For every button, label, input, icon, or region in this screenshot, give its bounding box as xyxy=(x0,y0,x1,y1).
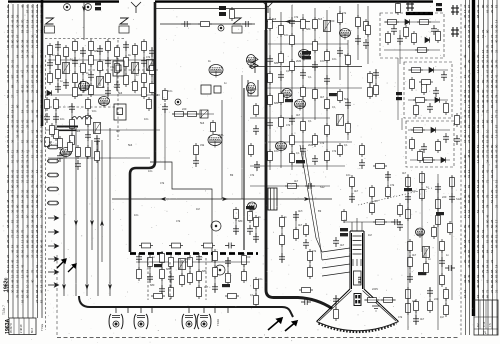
svg-text:46: 46 xyxy=(495,159,499,163)
wire xyxy=(116,48,118,90)
svg-text:13: 13 xyxy=(35,44,39,48)
svg-text:43: 43 xyxy=(6,24,10,28)
svg-text:58: 58 xyxy=(486,49,490,53)
svg-text:23: 23 xyxy=(26,279,30,283)
capacitor C21 xyxy=(53,113,59,123)
wire xyxy=(384,49,440,51)
svg-text:79: 79 xyxy=(11,269,15,273)
resistor R50 xyxy=(185,112,199,117)
svg-text:82: 82 xyxy=(6,189,10,193)
resistor R104 xyxy=(374,83,379,97)
resistor R137 xyxy=(308,249,313,263)
svg-text:50: 50 xyxy=(26,294,30,298)
wire xyxy=(326,10,328,170)
resistor R68 xyxy=(301,85,306,99)
arrowhead xyxy=(285,20,291,24)
wire xyxy=(45,129,160,131)
svg-text:22: 22 xyxy=(495,204,499,208)
svg-text:1962c: 1962c xyxy=(4,277,10,292)
svg-text:0,1: 0,1 xyxy=(296,151,300,155)
svg-text:76: 76 xyxy=(40,19,44,23)
arrowhead xyxy=(160,197,166,201)
svg-text:40: 40 xyxy=(490,64,494,68)
svg-text:41: 41 xyxy=(40,154,44,158)
svg-text:47k: 47k xyxy=(146,55,151,59)
svg-text:15: 15 xyxy=(11,274,15,278)
svg-text:41: 41 xyxy=(486,169,490,173)
svg-text:21: 21 xyxy=(31,84,35,88)
resistor R8 xyxy=(48,71,53,85)
svg-text:4k7: 4k7 xyxy=(374,199,379,203)
capacitor C13 xyxy=(88,71,94,81)
svg-text:52: 52 xyxy=(16,89,20,93)
svg-text:66: 66 xyxy=(16,194,20,198)
svg-text:82: 82 xyxy=(6,124,10,128)
wire xyxy=(397,58,399,120)
table divider xyxy=(479,300,481,329)
svg-text:20: 20 xyxy=(31,194,35,198)
svg-text:91: 91 xyxy=(476,34,480,38)
svg-text:4k7: 4k7 xyxy=(296,113,301,117)
wire xyxy=(243,88,245,250)
svg-text:76: 76 xyxy=(6,139,10,143)
svg-text:11: 11 xyxy=(490,115,494,118)
svg-text:51: 51 xyxy=(467,214,471,218)
svg-text:89: 89 xyxy=(495,84,499,88)
svg-text:80: 80 xyxy=(11,39,15,43)
resistor R56 xyxy=(268,71,273,85)
svg-text:46: 46 xyxy=(31,144,35,148)
svg-text:84: 84 xyxy=(6,74,10,78)
svg-text:B9: B9 xyxy=(318,209,322,213)
svg-text:23: 23 xyxy=(16,64,20,68)
capacitor C79 xyxy=(349,193,355,203)
svg-text:37: 37 xyxy=(6,54,10,58)
wire xyxy=(445,290,447,314)
resistor R110 xyxy=(373,164,387,169)
capacitor C20 xyxy=(149,47,155,57)
svg-text:44: 44 xyxy=(486,224,490,228)
svg-text:77: 77 xyxy=(35,14,39,18)
svg-text:10n: 10n xyxy=(320,59,325,63)
resistor R129 xyxy=(213,265,218,279)
svg-text:680: 680 xyxy=(94,49,99,53)
CRT grid electrode xyxy=(353,249,362,251)
svg-text:91: 91 xyxy=(11,154,15,158)
coil S2 xyxy=(97,77,104,88)
svg-text:43: 43 xyxy=(40,159,44,163)
table divider xyxy=(13,318,15,335)
svg-text:70: 70 xyxy=(463,234,467,238)
capacitor C66 xyxy=(293,211,299,221)
capacitor C29 xyxy=(162,103,168,113)
wire xyxy=(291,5,293,170)
svg-text:34: 34 xyxy=(21,149,25,153)
svg-text:37: 37 xyxy=(31,254,35,258)
right margin heavy wire xyxy=(472,0,475,316)
svg-text:10: 10 xyxy=(26,284,30,288)
svg-text:66: 66 xyxy=(31,9,35,13)
bold label block xyxy=(302,56,311,59)
tube holder xyxy=(248,80,258,96)
svg-text:52: 52 xyxy=(490,199,494,203)
svg-text:79: 79 xyxy=(486,44,490,48)
svg-text:95: 95 xyxy=(6,69,10,73)
svg-text:21: 21 xyxy=(481,134,485,138)
wire xyxy=(147,258,149,300)
capacitor C52 xyxy=(363,39,369,49)
test point M4 xyxy=(175,99,181,105)
svg-text:50: 50 xyxy=(40,49,44,53)
coil S7 xyxy=(324,21,331,32)
svg-text:38: 38 xyxy=(35,129,39,133)
resistor R163 xyxy=(414,299,419,313)
wire xyxy=(335,296,337,318)
svg-text:27: 27 xyxy=(35,299,39,303)
svg-text:99: 99 xyxy=(35,199,39,203)
svg-text:47k: 47k xyxy=(332,149,337,153)
svg-text:69: 69 xyxy=(481,149,485,153)
svg-text:90: 90 xyxy=(463,119,467,123)
resistor R52 xyxy=(194,143,199,157)
left margin wire L5 xyxy=(27,4,29,318)
svg-text:61: 61 xyxy=(21,69,25,73)
resistor R100 xyxy=(421,158,435,163)
svg-text:45: 45 xyxy=(21,89,25,93)
right margin dashed border xyxy=(460,4,462,337)
svg-text:11: 11 xyxy=(11,150,15,153)
svg-text:99: 99 xyxy=(35,34,39,38)
svg-text:79: 79 xyxy=(40,264,44,268)
svg-text:27: 27 xyxy=(11,94,15,98)
svg-text:63: 63 xyxy=(486,279,490,283)
svg-text:88: 88 xyxy=(31,64,35,68)
capacitor C15 xyxy=(105,57,111,67)
svg-text:65: 65 xyxy=(26,79,30,83)
wire xyxy=(170,258,172,296)
capacitor C33 xyxy=(278,71,284,81)
resistor R161 xyxy=(444,287,449,301)
svg-text:220: 220 xyxy=(78,93,83,97)
resistor R80 xyxy=(338,143,343,157)
wire xyxy=(344,221,400,223)
svg-text:78: 78 xyxy=(6,299,10,303)
svg-text:47k: 47k xyxy=(398,315,403,319)
resistor R70 xyxy=(313,17,318,31)
wire xyxy=(409,242,411,282)
resistor R145 xyxy=(381,298,395,303)
svg-text:46: 46 xyxy=(481,264,485,268)
capacitor C68 xyxy=(301,299,311,305)
svg-text:4k7: 4k7 xyxy=(340,243,345,247)
resistor R95 xyxy=(414,103,419,117)
resistor R32 xyxy=(150,63,155,77)
svg-text:86: 86 xyxy=(467,249,471,253)
wire xyxy=(86,150,88,296)
svg-text:95: 95 xyxy=(11,174,15,178)
svg-text:34: 34 xyxy=(490,39,494,43)
svg-text:67: 67 xyxy=(40,134,44,138)
bold label block xyxy=(329,93,337,96)
svg-text:66: 66 xyxy=(481,199,485,203)
svg-text:50: 50 xyxy=(6,94,10,98)
svg-text:18: 18 xyxy=(40,284,44,288)
svg-text:61: 61 xyxy=(21,169,25,173)
svg-text:14: 14 xyxy=(21,244,25,248)
svg-text:15: 15 xyxy=(476,249,480,253)
resistor R15 xyxy=(81,61,86,75)
chassis bar xyxy=(57,126,78,128)
svg-text:40: 40 xyxy=(6,164,10,168)
svg-text:25: 25 xyxy=(6,239,10,243)
svg-text:0,1: 0,1 xyxy=(344,143,348,147)
resistor R58 xyxy=(268,149,273,163)
wire xyxy=(71,104,73,144)
svg-text:66: 66 xyxy=(35,9,39,13)
tube B6 xyxy=(79,82,90,93)
svg-text:680: 680 xyxy=(186,257,191,261)
svg-text:44: 44 xyxy=(40,179,44,183)
svg-text:52: 52 xyxy=(21,139,25,143)
svg-text:36: 36 xyxy=(40,114,44,118)
svg-text:15: 15 xyxy=(16,274,20,278)
svg-text:680: 680 xyxy=(238,219,243,223)
svg-text:32: 32 xyxy=(476,119,480,123)
svg-text:26: 26 xyxy=(16,224,20,228)
svg-text:47: 47 xyxy=(26,44,30,48)
capacitor C28 xyxy=(193,157,199,167)
svg-text:31: 31 xyxy=(31,249,35,253)
svg-text:82: 82 xyxy=(31,229,35,233)
svg-text:68: 68 xyxy=(21,204,25,208)
wire xyxy=(87,100,89,156)
svg-text:20: 20 xyxy=(6,219,10,223)
resistor R11 xyxy=(64,45,69,59)
svg-text:41: 41 xyxy=(495,74,499,78)
svg-text:0,1: 0,1 xyxy=(286,69,290,73)
socket V3 xyxy=(182,314,196,329)
svg-text:82: 82 xyxy=(495,274,499,278)
svg-text:51: 51 xyxy=(495,234,499,238)
svg-text:49: 49 xyxy=(467,274,471,278)
EHT wire xyxy=(266,30,332,309)
svg-text:84: 84 xyxy=(21,214,25,218)
svg-text:50: 50 xyxy=(35,194,39,198)
resistor R3 xyxy=(342,209,347,223)
svg-text:98: 98 xyxy=(467,29,471,33)
svg-text:11: 11 xyxy=(6,130,10,133)
resistor R125 xyxy=(169,285,174,299)
resistor R89 xyxy=(415,48,429,53)
heater dashed bus xyxy=(130,252,258,255)
ground stub xyxy=(227,307,229,313)
resistor R131 xyxy=(151,294,165,299)
svg-text:58: 58 xyxy=(490,274,494,278)
resistor R107 xyxy=(356,15,361,29)
capacitor C74 xyxy=(439,257,445,267)
svg-text:28: 28 xyxy=(35,229,39,233)
svg-text:50: 50 xyxy=(490,224,494,228)
svg-text:2M2: 2M2 xyxy=(218,133,224,137)
svg-text:93: 93 xyxy=(490,89,494,93)
svg-text:58: 58 xyxy=(31,244,35,248)
svg-text:10n: 10n xyxy=(144,117,149,121)
svg-text:66: 66 xyxy=(481,104,485,108)
adjust arrow xyxy=(268,318,282,330)
capacitor C11 xyxy=(72,57,78,67)
svg-text:24: 24 xyxy=(16,79,20,83)
svg-text:47k: 47k xyxy=(160,181,165,185)
svg-text:10n: 10n xyxy=(148,169,153,173)
wire xyxy=(49,46,51,82)
wire xyxy=(235,210,237,234)
svg-text:4k7: 4k7 xyxy=(298,209,303,213)
resistor R86 xyxy=(412,31,417,45)
resistor R101 xyxy=(418,149,423,163)
svg-text:90: 90 xyxy=(495,144,499,148)
svg-text:48: 48 xyxy=(11,194,15,198)
svg-text:10n: 10n xyxy=(346,173,351,177)
resistor R170 xyxy=(386,185,391,199)
resistor R63 xyxy=(290,33,295,47)
resistor R36 xyxy=(54,127,59,141)
svg-text:43: 43 xyxy=(21,254,25,258)
svg-text:66: 66 xyxy=(467,14,471,18)
table divider xyxy=(474,328,498,330)
wire xyxy=(45,106,115,108)
svg-text:41: 41 xyxy=(6,79,10,83)
svg-text:48: 48 xyxy=(486,99,490,103)
svg-text:34: 34 xyxy=(486,159,490,163)
resistor R20 xyxy=(98,59,103,73)
svg-text:93: 93 xyxy=(495,34,499,38)
capacitor C4 xyxy=(303,239,309,249)
svg-text:85: 85 xyxy=(467,94,471,98)
svg-text:52: 52 xyxy=(26,29,30,33)
capacitor C26 xyxy=(57,152,63,162)
wire xyxy=(356,218,358,231)
svg-text:62: 62 xyxy=(476,274,480,278)
svg-text:40: 40 xyxy=(16,39,20,43)
bold label block xyxy=(285,99,293,102)
svg-text:C 12: C 12 xyxy=(483,321,486,327)
svg-text:66: 66 xyxy=(31,189,35,193)
tube B7 xyxy=(209,65,223,78)
svg-text:72: 72 xyxy=(495,109,499,113)
svg-text:43: 43 xyxy=(11,204,15,208)
loudspeaker LS3 xyxy=(232,18,242,33)
svg-text:89: 89 xyxy=(490,144,494,148)
svg-text:95: 95 xyxy=(6,244,10,248)
svg-text:45: 45 xyxy=(21,4,25,8)
svg-text:40: 40 xyxy=(481,94,485,98)
wire xyxy=(149,258,151,282)
svg-text:40: 40 xyxy=(40,139,44,143)
svg-text:29: 29 xyxy=(16,124,20,128)
svg-text:93: 93 xyxy=(35,264,39,268)
svg-text:68: 68 xyxy=(490,4,494,8)
resistor R62 xyxy=(279,115,284,129)
svg-text:96: 96 xyxy=(31,234,35,238)
svg-text:4k7: 4k7 xyxy=(116,129,121,133)
svg-text:38: 38 xyxy=(21,39,25,43)
svg-text:13: 13 xyxy=(21,239,25,243)
svg-text:52: 52 xyxy=(40,299,44,303)
svg-text:65: 65 xyxy=(26,4,30,8)
capacitor C31 xyxy=(267,55,273,65)
resistor R151 xyxy=(436,213,441,227)
svg-text:85: 85 xyxy=(490,279,494,283)
wire xyxy=(309,252,311,276)
svg-text:52: 52 xyxy=(495,4,499,8)
svg-text:49: 49 xyxy=(16,129,20,133)
wire xyxy=(437,184,439,224)
svg-text:91: 91 xyxy=(16,219,20,223)
svg-text:79: 79 xyxy=(495,59,499,63)
svg-text:43: 43 xyxy=(490,49,494,53)
CRT label box xyxy=(354,271,362,285)
deflection wire xyxy=(322,256,350,260)
svg-text:68: 68 xyxy=(476,279,480,283)
svg-text:220: 220 xyxy=(442,195,447,199)
svg-text:5k6: 5k6 xyxy=(128,143,133,147)
svg-text:32: 32 xyxy=(16,134,20,138)
plug X9 xyxy=(48,257,59,261)
svg-text:64: 64 xyxy=(463,289,467,293)
wire xyxy=(55,100,57,138)
resistor R77 xyxy=(325,149,330,163)
capacitor C39 xyxy=(312,155,318,165)
capacitor C18 xyxy=(123,41,129,51)
svg-text:39: 39 xyxy=(490,239,494,243)
svg-text:62: 62 xyxy=(481,164,485,168)
tube B12 xyxy=(276,142,287,153)
capacitor C57 xyxy=(196,253,202,263)
resistor R22 xyxy=(106,71,111,85)
svg-text:4k7: 4k7 xyxy=(412,253,417,257)
plug X6 xyxy=(48,216,59,220)
HT distribution wire xyxy=(130,2,155,252)
svg-text:220V: 220V xyxy=(372,287,378,291)
svg-text:94: 94 xyxy=(490,154,494,158)
svg-text:25: 25 xyxy=(467,134,471,138)
svg-text:30: 30 xyxy=(11,289,15,293)
svg-text:51: 51 xyxy=(31,24,35,28)
tube B9 xyxy=(299,50,310,61)
svg-text:5k6: 5k6 xyxy=(76,129,81,133)
wire xyxy=(429,288,431,310)
svg-text:24: 24 xyxy=(21,209,25,213)
svg-text:65: 65 xyxy=(467,34,471,38)
resistor R27 xyxy=(133,43,138,57)
svg-text:70: 70 xyxy=(21,19,25,23)
resistor R40 xyxy=(86,113,91,127)
resistor R19 xyxy=(89,83,94,97)
diode GR7 xyxy=(441,157,446,162)
svg-text:48: 48 xyxy=(31,99,35,103)
wire xyxy=(339,6,341,80)
svg-text:49: 49 xyxy=(21,289,25,293)
svg-text:34: 34 xyxy=(26,69,30,73)
svg-text:10n: 10n xyxy=(168,89,173,93)
decoupling block xyxy=(95,2,101,10)
svg-text:15: 15 xyxy=(35,234,39,238)
resistor R69 xyxy=(301,119,306,133)
left margin wire L4 xyxy=(22,4,24,318)
svg-text:25: 25 xyxy=(481,194,485,198)
wire xyxy=(99,46,101,86)
svg-text:80: 80 xyxy=(486,29,490,33)
